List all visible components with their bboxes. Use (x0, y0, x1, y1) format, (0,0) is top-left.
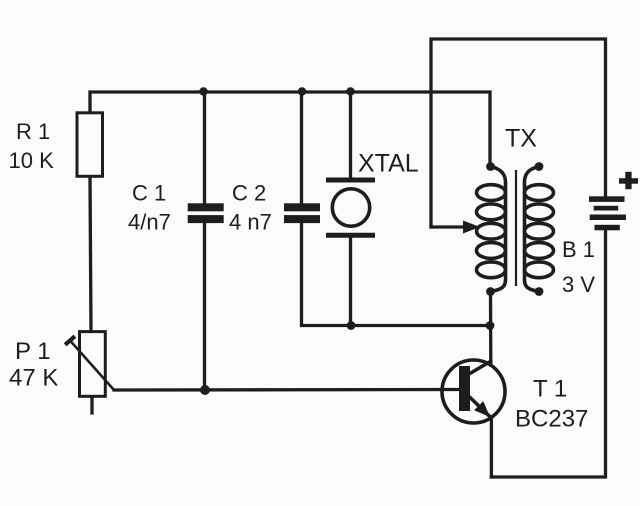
wire bottom rail (491, 230, 605, 477)
crystal XTAL (326, 180, 375, 235)
wire tap arrow line (431, 225, 466, 228)
wire C2 bottom / XTAL bottom to collector (302, 223, 491, 326)
junction node dots (199, 87, 543, 395)
svg-text:C 1: C 1 (132, 181, 166, 206)
svg-text:TX: TX (505, 125, 537, 153)
wire feedback loop top (431, 39, 606, 227)
node top rail C1 (199, 87, 207, 95)
svg-text:10 K: 10 K (9, 148, 55, 173)
wire P1 wiper to base (114, 388, 459, 392)
transformer TX secondary coil (524, 167, 553, 292)
transistor T1 (442, 360, 505, 423)
svg-text:T 1: T 1 (533, 376, 567, 403)
svg-text:C 2: C 2 (232, 181, 266, 206)
node C1 base junction (200, 385, 210, 395)
node top rail XTAL (346, 87, 354, 95)
wire C2 top drop (300, 92, 303, 204)
node XTAL bottom junction (347, 321, 356, 330)
wire P1 bottom stub (90, 397, 93, 414)
wire top rail (90, 92, 490, 176)
wire emitter down (490, 418, 493, 477)
transformer TX primary coil (477, 167, 506, 292)
svg-text:P 1: P 1 (15, 338, 51, 365)
wire C1 top drop (203, 92, 206, 204)
wire XTAL top drop (349, 92, 352, 178)
battery B1 (589, 196, 626, 230)
svg-text:R 1: R 1 (16, 119, 50, 144)
wire XTAL bottom drop (349, 238, 352, 326)
wire collector column (489, 292, 493, 366)
wire C1 bottom to base line (203, 223, 206, 391)
node collector junction (486, 321, 495, 330)
svg-text:4/n7: 4/n7 (128, 210, 171, 235)
node TX secondary top (535, 162, 544, 171)
svg-text:XTAL: XTAL (358, 150, 419, 178)
svg-text:47 K: 47 K (9, 365, 58, 392)
tap arrowhead into TX primary (463, 221, 480, 234)
battery plus sign (619, 172, 638, 189)
transformer TX core (515, 170, 517, 286)
node TX primary top (486, 162, 495, 171)
resistor R1 (77, 113, 103, 177)
capacitor C2 (284, 203, 320, 223)
svg-text:B 1: B 1 (562, 237, 595, 262)
node TX secondary bottom (535, 287, 544, 296)
potentiometer P1 (80, 332, 106, 397)
node top rail C2 (298, 87, 306, 95)
svg-text:3 V: 3 V (562, 272, 595, 297)
svg-text:BC237: BC237 (515, 406, 588, 433)
potentiometer P1 wiper arrow (65, 336, 114, 390)
wire R1 to P1 (90, 176, 91, 332)
svg-text:4 n7: 4 n7 (229, 210, 272, 235)
capacitor C1 (188, 203, 224, 223)
node TX primary bottom (486, 287, 495, 296)
